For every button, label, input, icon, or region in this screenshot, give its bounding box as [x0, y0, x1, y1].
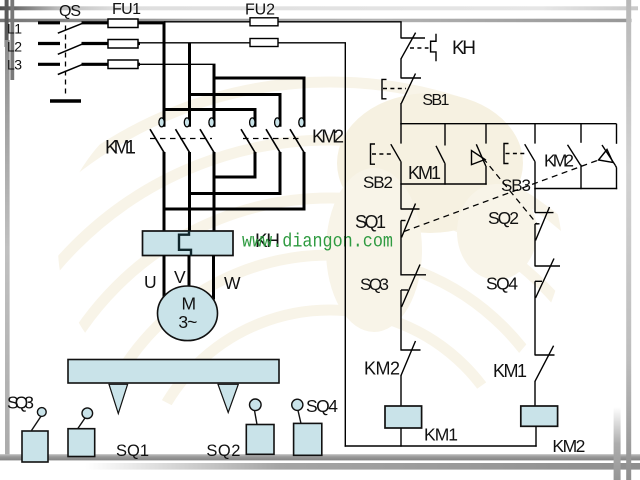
motor M	[158, 286, 218, 341]
frame: left short bar A	[5, 0, 9, 47]
wire KM2 pole1 output crossover to W	[214, 152, 255, 177]
switch QS linkage dashed	[65, 26, 67, 97]
frame: right long bar	[626, 0, 631, 480]
svg-text:QS: QS	[59, 3, 81, 20]
switch QS blade L1	[58, 23, 83, 33]
limit switch SQ4 hardware	[292, 399, 322, 455]
wire KM2 pole3 output crossover to U	[164, 152, 304, 209]
fuse FU1 pole3	[108, 60, 138, 69]
wire L3 FU1 to drop	[136, 63, 140, 66]
wire L1 stub	[38, 21, 60, 24]
fuse FU1 pole2	[108, 40, 138, 49]
wire KM2 pole2 output crossover to V	[190, 152, 281, 194]
frame: top bar 1	[0, 6, 638, 10]
coil KM2	[521, 406, 558, 426]
wire feed crossover L1 to KM2 pole1	[164, 110, 255, 127]
wire L2 to FU1	[82, 42, 111, 45]
svg-text:W: W	[224, 273, 241, 293]
wire L3 stub	[38, 63, 60, 66]
mech link dashed SQ1	[404, 160, 599, 232]
frame: bottom bar 2	[85, 463, 640, 470]
svg-text:SQ1: SQ1	[116, 442, 149, 460]
contactor KM2 main contacts	[241, 118, 304, 152]
frame: top bar 2	[0, 19, 632, 23]
wire KM1 pole3 drop	[213, 64, 216, 127]
contact KM2 interlock NC	[401, 341, 421, 407]
limit switch SQ1 hardware	[68, 408, 95, 457]
limit contact SQ2 NC	[535, 189, 554, 267]
wire L1 to FU1	[82, 21, 111, 24]
wire U to motor	[163, 256, 166, 298]
wire W to motor	[212, 256, 215, 300]
wire KM1 pole2 drop	[188, 44, 191, 127]
svg-text:L1: L1	[7, 21, 22, 37]
wire L2 FU1 to drop	[136, 42, 140, 45]
svg-text:SQ4: SQ4	[306, 396, 338, 416]
svg-text:KM1: KM1	[424, 425, 458, 445]
wire SB1 to bus	[400, 103, 402, 124]
wire KM2 coil to bottom rail	[535, 426, 537, 446]
button SB3 branch	[504, 124, 535, 190]
wire L1 FU1 to drop	[136, 21, 166, 24]
coil KM1	[385, 406, 422, 428]
fuse FU2 pole2	[250, 39, 278, 47]
switch QS blade L2	[58, 44, 83, 55]
cam dog 1	[109, 384, 128, 413]
wire KH to SB1	[400, 59, 402, 79]
svg-text:SQ4: SQ4	[486, 274, 518, 294]
wire left branch join	[400, 183, 486, 185]
svg-text:SQ1: SQ1	[355, 212, 386, 232]
fuse FU1 pole1	[108, 19, 138, 28]
contact KM2 aux branch	[568, 124, 582, 190]
wire L2 thin to left rail	[138, 42, 346, 44]
contact SQ2 NO branch	[472, 124, 487, 185]
wire right branch join	[534, 188, 617, 190]
contactor KM1 main contacts	[150, 118, 214, 152]
wire left return rail	[344, 43, 346, 447]
platform bar	[68, 360, 279, 384]
limit switch SQ3 hardware	[22, 408, 48, 462]
svg-text:U: U	[144, 272, 157, 292]
svg-text:SQ3: SQ3	[7, 393, 34, 413]
svg-text:KM1: KM1	[105, 138, 136, 159]
frame: bottom bar 1	[0, 454, 640, 460]
cam dog 2	[218, 384, 238, 412]
wire feed crossover L3 to KM2 pole3	[214, 78, 304, 127]
svg-text:SQ2: SQ2	[206, 442, 240, 460]
wire feed crossover L2 to KM2 pole2	[190, 95, 281, 127]
svg-text:3~: 3~	[178, 312, 197, 332]
frame: right short bar	[614, 407, 621, 480]
svg-text:L2: L2	[7, 39, 22, 55]
wire KM1 pole1 drop	[163, 23, 166, 127]
limit contact SQ1 NC	[401, 204, 420, 276]
limit contact SQ3 NC	[401, 265, 426, 351]
contact KM1 interlock NC	[535, 346, 555, 407]
wire L1 thin to control	[164, 21, 402, 23]
mech link dashed SQ2	[483, 158, 538, 225]
contact SQ1 NO branch	[599, 124, 617, 190]
svg-text:KM2: KM2	[312, 126, 344, 147]
wire L3 to FU1	[82, 63, 111, 66]
button SB1 stop	[382, 74, 421, 104]
svg-text:KM2: KM2	[552, 436, 585, 456]
fuse FU2 pole1	[250, 18, 278, 26]
svg-text:FU1: FU1	[112, 1, 141, 18]
svg-text:M: M	[182, 293, 197, 313]
switch QS handle bar	[50, 99, 81, 102]
wire KM1 pole outputs to heater box	[163, 152, 166, 232]
wire control drop from L1	[400, 22, 402, 39]
button SB2 start branch	[371, 124, 402, 210]
svg-text:SQ3: SQ3	[360, 275, 389, 294]
switch QS blade L3	[58, 64, 83, 74]
svg-text:V: V	[174, 267, 186, 287]
wire L2 stub	[38, 42, 60, 45]
wire bottom rail	[345, 445, 537, 447]
frame: left long bar	[5, 40, 10, 458]
svg-text:L3: L3	[7, 57, 22, 73]
svg-text:FU2: FU2	[245, 2, 275, 19]
thermal relay KH heater element	[179, 231, 191, 256]
thermal relay KH heater box	[143, 231, 234, 256]
thermal contact KH	[401, 33, 436, 62]
wire V to motor	[188, 256, 191, 288]
limit switch SQ2 hardware	[246, 399, 274, 454]
wire control bus	[400, 123, 616, 125]
svg-text:KM1: KM1	[408, 163, 441, 183]
svg-text:KM1: KM1	[493, 361, 527, 381]
wire KM1 coil to bottom rail	[400, 428, 402, 447]
svg-text:www.diangon.com: www.diangon.com	[242, 230, 393, 252]
svg-text:KM2: KM2	[364, 359, 400, 379]
contact KM1 aux branch	[436, 124, 445, 185]
svg-text:SB2: SB2	[363, 173, 393, 192]
frame: left short bar B	[10, 0, 14, 80]
svg-text:KM2: KM2	[544, 151, 574, 171]
limit contact SQ4 NC	[535, 259, 560, 356]
svg-text:KH: KH	[452, 38, 476, 59]
svg-text:SB1: SB1	[422, 92, 449, 109]
svg-text:SQ2: SQ2	[488, 208, 519, 228]
